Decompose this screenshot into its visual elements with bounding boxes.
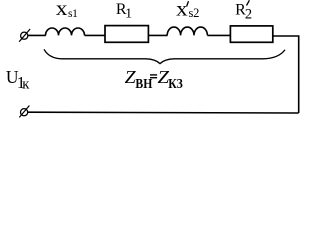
label R2' xyxy=(235,2,252,23)
bottom wire xyxy=(28,111,299,114)
svg-text:к: к xyxy=(22,76,30,92)
svg-text:ВН: ВН xyxy=(135,77,152,92)
resistor R1 xyxy=(105,26,148,43)
svg-text:1: 1 xyxy=(125,7,132,22)
svg-text:КЗ: КЗ xyxy=(168,77,183,92)
prime mark of R2' xyxy=(247,0,250,5)
prime mark of x'_s2 xyxy=(187,1,189,6)
svg-text:x: x xyxy=(176,0,188,20)
terminal top-left xyxy=(19,29,30,42)
inductor x_s1 xyxy=(46,28,85,35)
resistor R2' xyxy=(230,26,272,42)
svg-text:2: 2 xyxy=(245,6,252,22)
wire between inductor x'_s2 and resistor R2' xyxy=(207,34,231,36)
svg-text:s1: s1 xyxy=(68,8,78,20)
label U_1k xyxy=(6,67,30,92)
wire from R2' to right side and down (right vertical wire) xyxy=(273,36,299,113)
wire between R1 and inductor x'_s2 xyxy=(149,34,168,36)
label Zvn = Zkz xyxy=(125,67,183,92)
label R1 xyxy=(116,1,132,22)
wire between inductor x_s1 and resistor R1 xyxy=(85,34,106,36)
label x'_s2 xyxy=(176,0,199,20)
svg-text:x: x xyxy=(56,0,68,20)
terminal bottom-left xyxy=(19,106,29,118)
wire top from terminal to inductor x_s1 xyxy=(28,34,46,36)
brace under Zvn=Zkz xyxy=(44,49,285,63)
inductor x'_s2 xyxy=(167,27,207,35)
label x_s1 xyxy=(56,0,78,20)
svg-text:s2: s2 xyxy=(189,6,200,20)
